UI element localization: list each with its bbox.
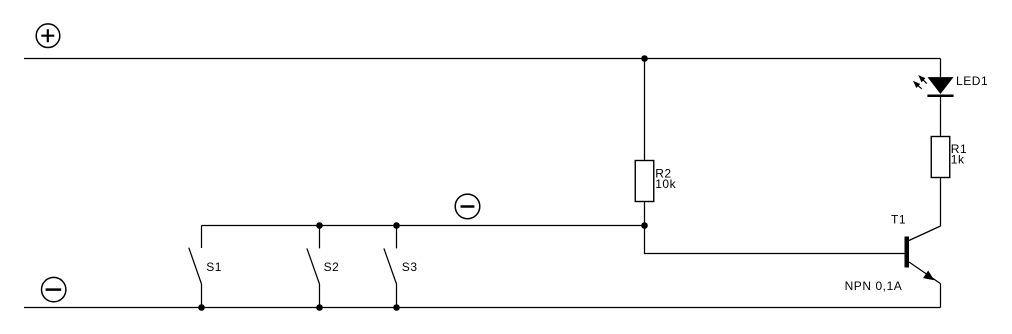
label R2 value	[655, 166, 676, 191]
switch S1	[189, 226, 202, 308]
wire: top positive rail	[24, 58, 941, 60]
plus terminal (+) symbol top left	[36, 24, 60, 48]
junction node: S1 bottom on negative rail	[198, 304, 205, 311]
svg-text:S2: S2	[324, 260, 340, 274]
LED1 emission arrow 2	[913, 81, 922, 89]
svg-text:T1: T1	[891, 213, 906, 227]
wire: middle rail	[202, 225, 645, 227]
wire: LED cathode to R1	[940, 97, 942, 137]
junction node: R2 top on positive rail	[641, 55, 648, 62]
resistor R1	[931, 137, 950, 178]
switch S2	[307, 226, 320, 308]
wire: R2 bottom to middle rail junction	[644, 202, 646, 226]
junction node: S2 bottom on negative rail	[316, 304, 323, 311]
junction node: middle rail / R2 / base wire	[641, 222, 648, 229]
junction node: S3 top on middle rail	[393, 222, 400, 229]
wire: junction down and right to transistor base	[645, 226, 905, 254]
wire: top rail to R2	[644, 59, 646, 161]
LED1 emission arrow 1	[918, 75, 927, 84]
junction node: S3 bottom on negative rail	[393, 304, 400, 311]
label R1 value	[951, 142, 967, 167]
wire: bottom negative rail	[24, 307, 941, 309]
minus terminal (-) symbol bottom left	[42, 277, 66, 301]
svg-text:10k: 10k	[655, 177, 676, 191]
switch S3	[384, 226, 397, 308]
svg-text:NPN 0,1A: NPN 0,1A	[845, 279, 903, 293]
LED LED1	[927, 59, 953, 98]
svg-text:LED1: LED1	[956, 74, 988, 88]
svg-text:S1: S1	[206, 260, 222, 274]
wire: R1 to transistor collector	[940, 178, 942, 227]
svg-text:S3: S3	[402, 260, 418, 274]
junction node: S2 top on middle rail	[316, 222, 323, 229]
svg-text:1k: 1k	[951, 152, 965, 166]
transistor T1 (NPN)	[905, 226, 941, 308]
minus terminal (-) symbol middle	[455, 194, 480, 219]
resistor R2	[635, 161, 654, 202]
